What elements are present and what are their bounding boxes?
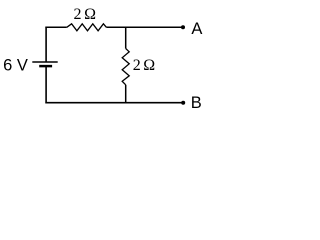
wire: left vertical from top corner to battery positive plate [45,27,47,63]
node B terminal dot [181,101,185,105]
node A terminal dot [181,25,185,29]
svg-text:A: A [191,20,202,38]
svg-text:B: B [191,94,202,112]
svg-text:2Ω: 2Ω [74,6,97,23]
wire: bottom horizontal segment to node B [45,102,182,104]
battery V1 negative plate (short thick) [39,65,52,68]
wire: middle vertical from top wire T-junction to R2 [125,27,127,49]
wire: middle vertical from R2 to bottom wire T-junction [125,85,127,104]
resistor R1 (horizontal zigzag, 2 ohm) [67,24,107,31]
wire: left vertical from battery negative plate to bottom wire [45,66,47,103]
wire: top-right horizontal segment to node A [106,26,182,28]
svg-text:6 V: 6 V [3,56,28,74]
battery V1 positive plate (long thin) [32,61,57,63]
svg-text:2Ω: 2Ω [133,57,156,74]
wire: top-left horizontal segment [45,26,66,28]
resistor R2 (vertical zigzag, 2 ohm) [122,49,129,85]
